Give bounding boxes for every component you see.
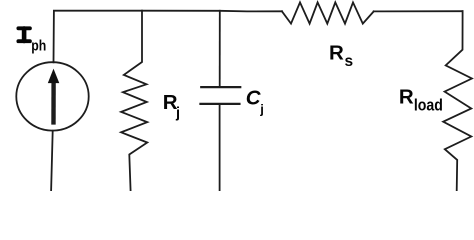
wire source bottom lead bbox=[51, 131, 53, 191]
label R_load bbox=[399, 86, 443, 115]
resistor R_j bbox=[121, 11, 147, 191]
svg-text:R: R bbox=[399, 86, 414, 109]
resistor R_s bbox=[282, 2, 374, 23]
resistor R_load bbox=[443, 11, 472, 191]
current source I_ph bbox=[16, 62, 88, 130]
svg-text:R: R bbox=[329, 41, 344, 64]
svg-text:j: j bbox=[259, 102, 264, 117]
label R_s bbox=[329, 41, 353, 69]
capacitor C_j bbox=[201, 11, 241, 191]
label R_j bbox=[163, 91, 180, 121]
svg-text:j: j bbox=[175, 106, 180, 122]
label C_j bbox=[246, 86, 264, 116]
label I_ph bbox=[18, 28, 46, 54]
svg-text:load: load bbox=[414, 97, 443, 115]
wire top rail right (Rs to corner) bbox=[374, 10, 463, 12]
svg-text:s: s bbox=[345, 53, 354, 70]
svg-text:ph: ph bbox=[31, 39, 46, 55]
wire top rail left (source top to Rs) bbox=[54, 11, 282, 63]
